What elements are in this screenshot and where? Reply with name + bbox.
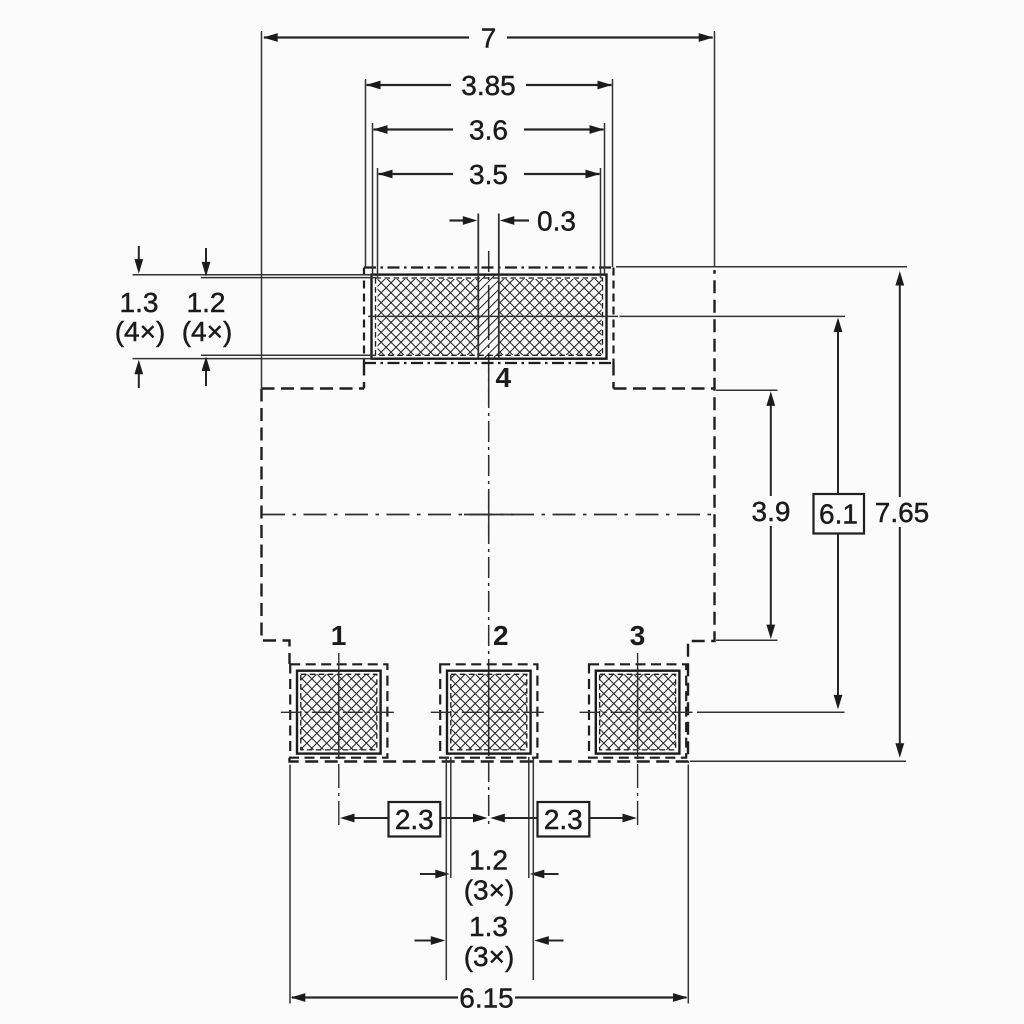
pad 4 inner stencil rect (dashed) xyxy=(376,278,603,355)
pad 1 hatch xyxy=(301,674,377,750)
pad 4 horizontal centerline xyxy=(368,315,618,317)
dimension 3.6 xyxy=(373,115,605,275)
dimension 3.5 xyxy=(378,159,601,278)
svg-text:6.1: 6.1 xyxy=(819,499,858,530)
pad 3 copper rect (solid) xyxy=(596,671,680,754)
pad 3 stencil rect (dashed) xyxy=(600,674,676,750)
dimension 7 (overall width) xyxy=(262,23,715,389)
svg-text:3.9: 3.9 xyxy=(752,496,791,527)
pad 4 (tab) xyxy=(364,268,618,394)
pad 2 hatch xyxy=(451,674,527,750)
svg-text:1.3: 1.3 xyxy=(469,911,508,942)
pad 3 xyxy=(580,620,696,826)
dimension 0.3 (tab gap) xyxy=(450,206,576,359)
pad 4 centre gap strip (single hatch) xyxy=(478,275,499,359)
pad 3 outer mask rect (dashed) xyxy=(589,664,686,757)
dimension 1.3 (4x) tab height xyxy=(115,246,374,388)
svg-text:1.3: 1.3 xyxy=(120,287,159,318)
pad 2 stencil rect (dashed) xyxy=(451,674,527,750)
pad 1 horizontal centerline xyxy=(281,711,397,713)
svg-text:(4×): (4×) xyxy=(182,316,233,347)
svg-text:2: 2 xyxy=(493,620,509,651)
svg-text:1.2: 1.2 xyxy=(469,845,508,876)
dimension 2.3 left (boxed, pad pitch 1-2) xyxy=(340,802,488,837)
pad 4 copper rect (solid) xyxy=(372,275,607,359)
pad 2 outer mask rect (dashed) xyxy=(440,664,537,757)
pad 3 hatch xyxy=(600,674,676,750)
svg-text:4: 4 xyxy=(496,362,512,393)
dimension 2.3 right (boxed, pad pitch 2-3) xyxy=(490,802,637,837)
pad 4 outer solder-mask rect (dash-dot horizontals, dashed verticals) xyxy=(364,266,614,268)
dimension 1.2 (3x) pad width xyxy=(420,757,559,906)
svg-text:1.2: 1.2 xyxy=(187,287,226,318)
dimension 1.2 (4x) tab copper height xyxy=(182,248,376,386)
svg-text:6.15: 6.15 xyxy=(459,983,514,1014)
pad 1 xyxy=(281,620,397,826)
pad 2 copper rect (solid) xyxy=(447,671,531,754)
pad 3 vertical centerline xyxy=(637,653,639,826)
svg-text:2.3: 2.3 xyxy=(395,804,434,835)
svg-text:(3×): (3×) xyxy=(464,875,515,906)
svg-text:1: 1 xyxy=(331,620,347,651)
dimension 6.15 (pad row width) xyxy=(290,765,688,1014)
svg-text:3.5: 3.5 xyxy=(469,159,508,190)
pad 4 hatch left half xyxy=(378,279,479,355)
svg-text:2.3: 2.3 xyxy=(544,804,583,835)
pad 2 xyxy=(431,620,547,758)
pad 2 horizontal centerline xyxy=(431,711,547,713)
svg-text:7.65: 7.65 xyxy=(875,497,930,528)
pad 4 hatch right half xyxy=(499,279,602,355)
svg-text:7: 7 xyxy=(481,23,497,54)
svg-text:0.3: 0.3 xyxy=(537,206,576,237)
svg-text:3: 3 xyxy=(630,620,646,651)
svg-text:3.85: 3.85 xyxy=(461,70,516,101)
dimension 3.9 xyxy=(716,390,790,640)
package body outline (dashed) xyxy=(262,270,715,762)
svg-text:(4×): (4×) xyxy=(115,316,166,347)
svg-text:(3×): (3×) xyxy=(464,941,515,972)
vertical main centerline through pads 4 and 2 xyxy=(488,251,490,826)
dimension 3.85 xyxy=(366,70,613,267)
horizontal package centerline xyxy=(262,514,715,516)
pad 3 horizontal centerline xyxy=(580,711,696,713)
pad 1 vertical centerline xyxy=(338,653,340,826)
svg-text:3.6: 3.6 xyxy=(469,115,508,146)
dimension 6.1 (boxed) xyxy=(620,316,865,712)
pad 1 copper rect (solid) xyxy=(297,671,381,754)
pad 1 stencil rect (dashed) xyxy=(301,674,377,750)
pad 1 outer mask rect (dashed) xyxy=(290,664,387,757)
dimension 1.3 (3x) pad mask width xyxy=(415,757,564,980)
dimension 7.65 xyxy=(616,267,929,761)
